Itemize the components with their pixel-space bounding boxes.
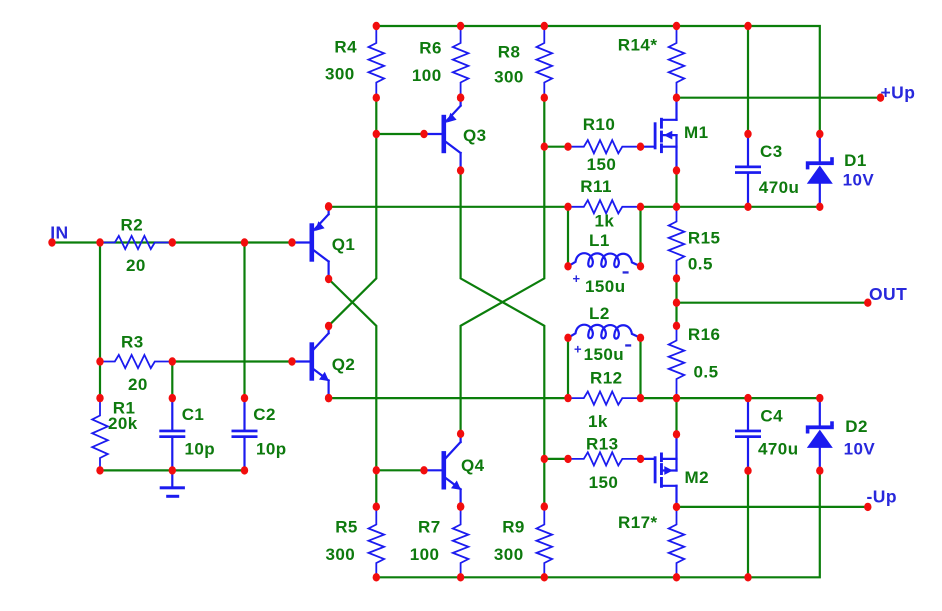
svg-text:Q4: Q4 xyxy=(461,456,485,475)
zener diode D1 xyxy=(819,134,821,163)
wire IN row xyxy=(52,241,292,243)
junction dot +Up xyxy=(877,94,884,102)
svg-text:M1: M1 xyxy=(684,123,709,142)
wire R4 column / cross to Q2 collector xyxy=(329,98,377,326)
svg-text:R3: R3 xyxy=(121,333,144,352)
wire R16 to M2 source xyxy=(675,398,677,434)
svg-text:10V: 10V xyxy=(843,170,875,189)
svg-text:R12: R12 xyxy=(590,369,623,388)
svg-text:150u: 150u xyxy=(585,277,626,296)
junction dots L1 xyxy=(564,262,571,270)
wire C2 column xyxy=(243,243,245,399)
svg-text:R5: R5 xyxy=(335,518,358,537)
resistor R10 xyxy=(568,140,641,153)
wire R10 link xyxy=(544,146,568,148)
junction dots R12 row xyxy=(325,394,332,402)
svg-text:R7: R7 xyxy=(418,518,441,537)
svg-text:300: 300 xyxy=(494,68,524,87)
resistor R8 xyxy=(537,26,553,98)
junction dots -Up row xyxy=(541,502,548,510)
capacitor C3 xyxy=(747,134,749,166)
ground xyxy=(171,470,173,487)
junction dots bottom rail xyxy=(373,573,380,581)
resistor R11 xyxy=(568,200,641,213)
svg-text:100: 100 xyxy=(410,545,440,564)
resistor R15 xyxy=(669,207,685,279)
junction dots ground rail xyxy=(96,466,103,474)
wire L2 right leg xyxy=(639,338,641,398)
wire Q3 base xyxy=(376,133,424,135)
wire ground rail xyxy=(100,469,245,471)
svg-text:IN: IN xyxy=(50,223,68,243)
resistor R17 xyxy=(669,507,685,577)
svg-text:0.5: 0.5 xyxy=(688,254,713,273)
svg-text:10V: 10V xyxy=(844,440,876,459)
transistor Q3 xyxy=(424,133,442,135)
wire M1 source to R15 xyxy=(675,171,677,207)
junction dots OUT row xyxy=(673,299,680,307)
svg-text:20: 20 xyxy=(126,256,146,275)
inductor L1 xyxy=(568,253,641,267)
wire C4 column xyxy=(747,471,749,578)
svg-text:1k: 1k xyxy=(588,412,608,431)
svg-text:20k: 20k xyxy=(108,414,138,433)
svg-text:300: 300 xyxy=(494,545,524,564)
junction dots R13 row xyxy=(541,455,548,463)
wire C3 column xyxy=(747,26,749,134)
junction dot R16 top xyxy=(673,322,680,330)
resistor R5 xyxy=(369,507,385,578)
junction dots Q4 xyxy=(457,430,464,438)
svg-text:R2: R2 xyxy=(121,216,144,235)
svg-text:+Up: +Up xyxy=(881,83,916,103)
junction dot R15 bottom xyxy=(673,274,680,282)
svg-text:C2: C2 xyxy=(253,405,276,424)
wire Q4 base xyxy=(376,469,424,471)
transistor Q1 xyxy=(292,241,310,243)
svg-text:150: 150 xyxy=(589,473,619,492)
wire Q3 collector column / cross to R13 column xyxy=(461,171,545,507)
wire R3 row xyxy=(172,360,292,362)
mosfet M1 xyxy=(641,146,655,148)
mosfet M2 xyxy=(641,458,655,460)
svg-text:Q1: Q1 xyxy=(332,235,356,254)
wire L2 left leg xyxy=(567,338,569,398)
wire input column xyxy=(99,243,101,399)
svg-text:Q3: Q3 xyxy=(463,126,487,145)
resistor R1 xyxy=(92,398,108,470)
junction dots IN row xyxy=(48,238,55,246)
resistor R16 xyxy=(669,326,685,398)
svg-text:C1: C1 xyxy=(182,405,205,424)
svg-text:R16: R16 xyxy=(688,325,721,344)
wire R12 row right xyxy=(641,397,820,399)
wire R11 row right xyxy=(641,206,820,208)
svg-text:470u: 470u xyxy=(759,178,800,197)
svg-text:C4: C4 xyxy=(760,407,783,426)
junction dots L2 xyxy=(564,334,571,342)
svg-text:R17*: R17* xyxy=(618,513,658,532)
resistor R12 xyxy=(568,392,641,405)
svg-text:10p: 10p xyxy=(256,440,287,459)
junction dots Q4 base row xyxy=(373,466,380,474)
svg-text:R4: R4 xyxy=(334,37,357,56)
svg-text:150: 150 xyxy=(587,155,617,174)
wire OUT xyxy=(677,302,868,304)
junction dots Q3 xyxy=(457,94,464,102)
svg-text:R8: R8 xyxy=(498,42,521,61)
capacitor C1 xyxy=(171,398,173,430)
svg-text:300: 300 xyxy=(325,65,355,84)
junction dots under top resistors xyxy=(373,94,380,102)
wire top rail xyxy=(376,26,820,134)
resistor R4 xyxy=(369,26,385,98)
junction dots C4 D2 bottoms xyxy=(744,467,751,475)
wire L1 left leg xyxy=(567,207,569,266)
svg-text:R6: R6 xyxy=(419,39,442,58)
inductor L2 xyxy=(568,325,641,339)
junction dot M1 source xyxy=(673,166,680,174)
svg-text:L1: L1 xyxy=(589,231,610,250)
svg-text:20: 20 xyxy=(128,375,148,394)
svg-text:470u: 470u xyxy=(758,440,799,459)
svg-text:Q2: Q2 xyxy=(332,355,356,374)
svg-text:R9: R9 xyxy=(502,518,525,537)
svg-text:L2: L2 xyxy=(589,304,610,323)
svg-text:100: 100 xyxy=(412,66,442,85)
wire R11 row left xyxy=(329,206,568,208)
junction dots R10 row xyxy=(541,143,548,151)
svg-text:150u: 150u xyxy=(584,345,625,364)
svg-text:R14*: R14* xyxy=(618,36,658,55)
resistor R6 xyxy=(453,26,469,98)
wire R8 column / cross to Q4 side xyxy=(461,98,545,434)
svg-text:+: + xyxy=(573,271,581,286)
svg-text:1k: 1k xyxy=(595,211,615,230)
wire Q1 collector cross to R5 column xyxy=(329,279,377,507)
resistor R7 xyxy=(453,507,469,578)
svg-text:-Up: -Up xyxy=(867,487,898,507)
junction dot M2 source xyxy=(673,430,680,438)
junction dots Q2 xyxy=(325,322,332,330)
resistor R2 xyxy=(100,236,172,249)
wire R15 to R16 xyxy=(675,278,677,325)
transistor Q4 xyxy=(424,469,442,471)
resistor R9 xyxy=(537,507,553,578)
svg-text:C3: C3 xyxy=(760,142,783,161)
svg-text:300: 300 xyxy=(326,545,356,564)
wire -Up rail xyxy=(677,506,868,508)
capacitor C4 xyxy=(747,398,749,430)
wire bottom rail xyxy=(376,471,820,578)
svg-text:10p: 10p xyxy=(185,440,216,459)
svg-text:+: + xyxy=(574,342,582,357)
junction dots R3 row xyxy=(96,357,103,365)
svg-text:0.5: 0.5 xyxy=(694,363,719,382)
zener diode D2 xyxy=(819,398,821,427)
svg-text:D2: D2 xyxy=(845,417,868,436)
junction dots Q3 base row / C3 D1 tops xyxy=(373,130,380,138)
wire C1 column xyxy=(171,362,173,399)
svg-text:M2: M2 xyxy=(685,468,710,487)
svg-text:R15: R15 xyxy=(688,228,721,247)
svg-text:D1: D1 xyxy=(844,151,867,170)
capacitor C2 xyxy=(243,398,245,430)
wire R12 row left xyxy=(329,397,568,399)
transistor Q2 xyxy=(292,360,310,362)
svg-text:R11: R11 xyxy=(580,177,612,196)
resistor R13 xyxy=(568,452,641,465)
wire R13 link xyxy=(544,458,568,460)
junction dots top rail xyxy=(373,22,380,30)
junction dots Q1 xyxy=(325,202,332,210)
resistor R14 xyxy=(669,26,685,98)
junction dots R11 row xyxy=(325,203,332,211)
svg-text:R10: R10 xyxy=(583,115,616,134)
resistor R3 xyxy=(100,355,172,368)
svg-text:OUT: OUT xyxy=(869,284,907,304)
svg-text:R13: R13 xyxy=(586,435,619,454)
wire +Up rail xyxy=(677,97,881,99)
junction dots C tops row xyxy=(96,394,103,402)
wire L1 right leg xyxy=(639,207,641,266)
